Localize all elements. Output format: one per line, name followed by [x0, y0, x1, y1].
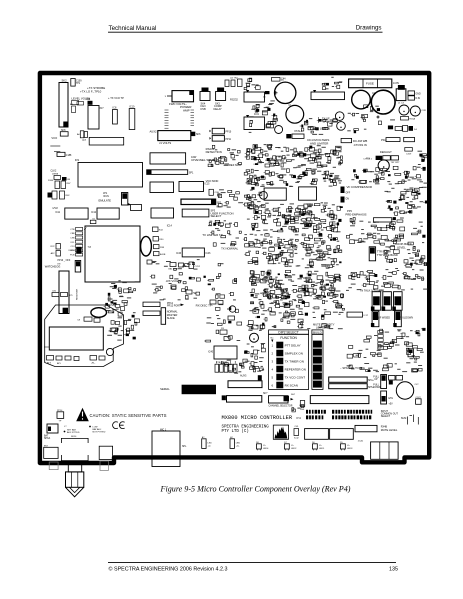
relay K1 fwd-volts: [165, 91, 194, 102]
component cluster (pre-emphasis right): [385, 187, 428, 215]
component cluster (left of modulator): [208, 145, 241, 166]
component cluster (mid-left strip): [150, 259, 237, 300]
svg-text:SUM: SUM: [401, 417, 406, 420]
component cluster (bottom mid misc): [292, 405, 304, 412]
svg-text:-. SPK/LINE TO SPK: -. SPK/LINE TO SPK: [340, 366, 365, 370]
connector AUX3: [228, 375, 262, 388]
terminal block X2: [358, 441, 398, 460]
CPU IC28 (square QFP): [84, 226, 140, 282]
resistor row 2 below VCO: [90, 356, 105, 365]
svg-text:SIMPLEX ON: SIMPLEX ON: [285, 352, 303, 356]
resistor PH6: [300, 401, 305, 412]
svg-text:+ TX VCO TP: + TX VCO TP: [108, 96, 124, 100]
svg-text:LED: LED: [208, 443, 213, 445]
capacitor C82: [77, 317, 100, 322]
svg-text:L1 C3: L1 C3: [398, 103, 405, 105]
component cluster (ttr area): [384, 246, 427, 271]
svg-text:PP11: PP11: [226, 139, 232, 141]
svg-text:C9B: C9B: [70, 238, 75, 240]
svg-text:LED2: LED2: [291, 448, 297, 450]
trimpot PP11: [210, 136, 232, 142]
speaker/buzzer LS1: [396, 382, 413, 399]
labels ETH +5V: [389, 398, 394, 406]
svg-text:OFF: OFF: [346, 193, 351, 195]
IC39: [143, 311, 160, 315]
svg-text:ON: ON: [346, 199, 350, 201]
fuse block F1: [349, 79, 392, 88]
diode D4: [388, 126, 402, 131]
svg-text:A31B: A31B: [160, 253, 166, 256]
IC31 (audio IC): [244, 114, 265, 130]
connector SK1 (receiver header): [59, 271, 69, 314]
resistor A32: [51, 251, 61, 257]
crystal Y2 (oval): [91, 308, 107, 318]
connector SK8: [60, 130, 68, 136]
svg-text:PP14: PP14: [57, 410, 63, 412]
logo barcode (spectra): [273, 425, 288, 439]
svg-text:Q2 TR2: Q2 TR2: [230, 78, 238, 80]
svg-text:CTCSS: CTCSS: [106, 303, 115, 307]
relay footprint K2: [305, 429, 329, 440]
svg-text:Technical Manual: Technical Manual: [109, 25, 157, 32]
capacitor C45 (electrolytic): [286, 105, 304, 123]
trimpot VR2: [337, 122, 346, 131]
jumper PP7: [408, 349, 413, 357]
label DC-FM WB CTCSS IN: [353, 139, 367, 147]
svg-text:SELECT: SELECT: [211, 214, 222, 218]
connector SK10: [222, 393, 268, 402]
svg-text:DM18: DM18: [69, 250, 76, 252]
resistor R17: [341, 138, 352, 142]
resistor pack row (reset): [215, 361, 237, 372]
IC46: [176, 248, 211, 257]
IC16: [151, 208, 174, 218]
svg-text:-D-: -D-: [347, 445, 350, 447]
pin label column (power amp pins): [165, 110, 195, 128]
label SP3 USER FUNCTION SELECT: [211, 210, 234, 219]
inductor L1: [398, 103, 409, 116]
svg-text:PR12 PORT: PR12 PORT: [167, 305, 181, 308]
component cluster (disc extra): [256, 273, 340, 298]
label PP12 PORT: [167, 302, 184, 308]
svg-text:CTC56 1: CTC56 1: [363, 159, 373, 161]
svg-text:DVB: DVB: [248, 330, 253, 332]
DIP switch column BUILD: [312, 330, 323, 390]
svg-text:+D-: +D-: [236, 445, 240, 447]
transistor TR4: [275, 126, 283, 134]
svg-text:-D-: -D-: [263, 445, 266, 447]
svg-text:SPKA: SPKA: [44, 437, 51, 440]
wire stub left: [44, 346, 49, 348]
svg-text:Drawings: Drawings: [356, 25, 382, 32]
board outline (PCB edge): [40, 73, 429, 463]
svg-text:IC42: IC42: [294, 438, 299, 440]
label JP1 RUN EMULATE: [99, 192, 112, 203]
zener Z6: [263, 91, 270, 99]
component cluster (above DIP table): [267, 300, 344, 329]
test wire stubs: [50, 145, 60, 147]
resistor network RN2: [403, 126, 418, 132]
svg-text:ADJ FITTED: ADJ FITTED: [67, 431, 80, 434]
svg-text:NOT FITTED: NOT FITTED: [93, 432, 106, 434]
capacitor C18B: [416, 397, 422, 404]
component cluster (loop-back area): [346, 217, 425, 247]
connector SP4 (ribbon): [329, 377, 375, 382]
IC14: [150, 182, 174, 193]
inductor L2: [410, 106, 426, 116]
IC11: [55, 208, 88, 219]
svg-text:LIF WISED: LIF WISED: [378, 316, 390, 319]
svg-text:VCO: VCO: [51, 136, 57, 140]
svg-text:LIF ULDOWN: LIF ULDOWN: [398, 316, 413, 319]
svg-text:IC9: IC9: [75, 158, 80, 162]
svg-text:D.IN: D.IN: [416, 98, 421, 100]
svg-text:-RX VCO TP: -RX VCO TP: [166, 279, 183, 283]
svg-text:DOWN: DOWN: [373, 387, 381, 389]
IC12: [91, 208, 119, 219]
svg-text:FUNCTION: FUNCTION: [280, 336, 297, 340]
component cluster (top edge misc): [244, 78, 260, 90]
svg-text:C319: C319: [406, 154, 412, 156]
jumper pull-up/down: [381, 375, 387, 405]
label TTR NORM / TTR WIDE BAND: [377, 250, 398, 257]
label LOW BAT marker: [89, 426, 106, 434]
svg-text:SPL: SPL: [182, 446, 187, 448]
component cluster (top edge right of C44): [322, 77, 342, 90]
svg-text:SLAVE: SLAVE: [167, 316, 175, 320]
connector bottom stub B: [99, 446, 112, 459]
svg-text:MUTE LEVEL: MUTE LEVEL: [381, 428, 398, 432]
fuse F2: [57, 410, 64, 423]
capacitor C319: [405, 148, 413, 156]
capacitor C109 with TP1: [71, 79, 82, 87]
DIP switch table DIP2 SELECT: [269, 330, 309, 390]
regulator PS1: [381, 137, 415, 141]
microphone connector MIC1: [152, 430, 187, 467]
label TX VF GAIN: [319, 117, 330, 124]
resistor row below VCO: [47, 356, 80, 366]
svg-text:PC92: PC92: [195, 266, 201, 268]
label POWER AMP: [180, 105, 192, 113]
svg-text:RUN: RUN: [104, 195, 110, 198]
IC15: [179, 182, 210, 192]
svg-text:IC40: IC40: [208, 352, 214, 354]
resistor R38: [154, 245, 165, 250]
component cluster (right of SK1): [104, 280, 140, 340]
svg-text:-D-: -D-: [319, 445, 322, 447]
component cluster (serial area misc): [221, 359, 249, 374]
component cluster (right of SP3): [217, 189, 244, 207]
svg-text:PRE-EMPHASIS: PRE-EMPHASIS: [345, 212, 366, 216]
svg-text:C18?: C18?: [416, 397, 422, 399]
transistor TR5: [260, 191, 268, 199]
relay footprint K3: [330, 429, 354, 440]
resistor cluster mid: [168, 263, 184, 271]
channel selector switch: [269, 394, 296, 408]
svg-text:SK6: SK6: [196, 134, 201, 136]
svg-text:IC14: IC14: [167, 225, 173, 228]
svg-text:SK14: SK14: [71, 436, 77, 438]
capacitor C2 (reservoir): [355, 90, 395, 118]
IC30 (op-amp): [311, 90, 345, 100]
capacitor PC92: [189, 262, 201, 269]
svg-text:LED1: LED1: [319, 448, 325, 450]
svg-text:C188: C188: [66, 155, 72, 157]
jumper JP5 default row: [366, 156, 399, 160]
component cluster (lower mid strip): [204, 304, 242, 342]
crystal XTAL1: [286, 129, 304, 138]
svg-text:FUSE: FUSE: [366, 82, 374, 86]
svg-text:AMP: AMP: [183, 109, 190, 113]
connector SK3 COMP DELAY: [214, 88, 226, 112]
svg-text:C?B R?B: C?B R?B: [216, 362, 226, 364]
svg-text:LEVEL: LEVEL: [397, 245, 406, 249]
svg-text:JWPA: JWPA: [52, 173, 58, 176]
svg-text:MX800 MICRO CONTROLLER: MX800 MICRO CONTROLLER: [222, 415, 293, 421]
LED row D4-D8: [202, 436, 353, 450]
connector SK7 (DC in): [393, 83, 406, 101]
terminal GND: [408, 91, 421, 95]
trimpot DVB2: [248, 330, 259, 342]
IC10: [129, 106, 135, 130]
svg-text:VF COMPRESSOR: VF COMPRESSOR: [347, 185, 373, 189]
jumper PP4 TTR: [369, 247, 375, 261]
svg-text:IC31: IC31: [254, 114, 260, 116]
svg-text:DELAY: DELAY: [214, 107, 222, 111]
component cluster (right edge strip): [417, 151, 428, 168]
svg-text:IC11: IC11: [55, 212, 60, 214]
speaker connector bracket SK14: [61, 436, 88, 461]
component cluster (below C44): [262, 100, 277, 127]
connector SP1 (flat cable): [147, 170, 194, 175]
IC footprint SUM: [401, 415, 418, 425]
IC7 (long DIP): [82, 137, 123, 145]
trimpot PR5: [228, 306, 236, 320]
component cluster (filter section): [243, 233, 342, 268]
svg-text:TX VCO CONT: TX VCO CONT: [285, 376, 306, 380]
capacitor C6: [90, 219, 96, 224]
svg-text:IC46: IC46: [176, 253, 182, 255]
capacitor C81 pair: [52, 291, 73, 298]
component cluster (tone select): [346, 271, 428, 291]
resistor R68: [86, 99, 93, 105]
IC47: [355, 425, 377, 431]
svg-text:PTY LTD (C): PTY LTD (C): [222, 429, 249, 434]
capacitor C3H: [209, 189, 219, 195]
svg-text:IC8: IC8: [113, 107, 117, 110]
svg-text:+D-: +D-: [208, 445, 212, 447]
svg-text:TX TIMER ON: TX TIMER ON: [285, 360, 304, 364]
component cluster (discriminator section): [249, 270, 343, 300]
svg-text:CAUTION: STATIC SENSITIVE PART: CAUTION: STATIC SENSITIVE PARTS: [90, 413, 167, 418]
svg-text:ON: ON: [67, 179, 71, 181]
resistor cluster near SK2: [70, 101, 84, 113]
component cluster (above modulator ICs): [244, 168, 342, 187]
IC40: [208, 346, 237, 359]
trimpot PP10: [210, 128, 232, 134]
label LOOP-BACK LEVEL: [396, 242, 412, 249]
svg-text:R16A: R16A: [410, 118, 416, 121]
jumper block row 2: [371, 311, 401, 327]
svg-text:X1?: X1?: [100, 108, 105, 110]
svg-text:C3R: C3R: [422, 110, 427, 112]
svg-text:SPECTRA ENGINEERING: SPECTRA ENGINEERING: [222, 425, 270, 429]
svg-text:TST RPT: TST RPT: [391, 162, 401, 164]
VCO shield outline: [45, 305, 124, 367]
header rule: [108, 31, 383, 33]
svg-text:LED3: LED3: [347, 448, 353, 450]
capacitor C58: [224, 337, 230, 341]
svg-text:C7B: C7B: [70, 229, 75, 231]
transistor A6 pair: [77, 131, 88, 138]
svg-text:EMULATE: EMULATE: [99, 199, 112, 203]
capacitor C51: [147, 260, 152, 264]
resistor A31B: [154, 252, 166, 257]
svg-text:IC15: IC15: [205, 184, 211, 186]
capacitor C41: [294, 426, 299, 440]
svg-text:DVB: DVB: [201, 107, 207, 111]
component cluster (compressor right): [351, 166, 428, 184]
svg-text:IC10: IC10: [129, 106, 135, 109]
component cluster (limiter strip): [208, 220, 241, 246]
svg-text:13.8V: 13.8V: [393, 83, 399, 85]
svg-text:CLK2: CLK2: [51, 171, 57, 173]
connector SP5 (ribbon): [329, 384, 375, 389]
svg-text:SP1: SP1: [189, 172, 194, 175]
resistor cluster near R33: [171, 285, 197, 295]
svg-text:RX SCAN: RX SCAN: [285, 384, 298, 388]
component cluster (left of IC23): [244, 187, 262, 202]
svg-text:IC12: IC12: [91, 212, 97, 214]
svg-text:P.4: P.4: [297, 416, 302, 420]
svg-text:SK?: SK?: [263, 393, 268, 395]
svg-text:SELECT: SELECT: [381, 415, 391, 418]
svg-text:C8B: C8B: [70, 233, 75, 235]
svg-text:CHANNEL SELECTOR: CHANNEL SELECTOR: [269, 405, 293, 408]
svg-text:R166: R166: [48, 180, 54, 182]
jumper PP2 compressor: [341, 187, 351, 203]
component cluster (modulator section): [243, 202, 343, 233]
label PP3 PRE-EMPHASIS: [345, 209, 366, 216]
resistor R22: [50, 244, 60, 250]
label RX4B MUTE LEVEL: [381, 426, 398, 432]
svg-text:REPEATER ON: REPEATER ON: [285, 368, 306, 372]
svg-text:RS232: RS232: [230, 98, 238, 102]
connector SP3: [182, 209, 209, 217]
svg-text:PP10: PP10: [226, 132, 232, 134]
connector bottom stub A: [49, 462, 58, 470]
IC23: [264, 188, 286, 200]
svg-text:AND LIMITER: AND LIMITER: [310, 141, 328, 145]
svg-text:Figure 9-5 Micro Controller C: Figure 9-5 Micro Controller Component Ov…: [160, 485, 351, 494]
svg-text:-D-: -D-: [291, 445, 294, 447]
resistor R42: [153, 227, 164, 232]
terminal D.IN: [408, 96, 420, 100]
svg-text:H*L8: H*L8: [53, 208, 59, 210]
svg-text:PCB: PCB: [70, 255, 75, 257]
date code stamps: [306, 410, 372, 420]
svg-text:.CTCSS IN: .CTCSS IN: [353, 143, 367, 147]
svg-text:LED4: LED4: [263, 448, 269, 450]
IC17: [347, 312, 369, 317]
black cap DM18: [69, 247, 82, 254]
label INPUT COMMON OUT SELECT: [381, 410, 399, 418]
capacitor C188: [57, 152, 72, 157]
component cluster (TX audio section): [245, 144, 343, 168]
resistor R33: [220, 328, 227, 334]
svg-text:IC17: IC17: [364, 315, 369, 317]
DC power plug: [66, 464, 84, 497]
svg-text:J1 VOLTS: J1 VOLTS: [159, 141, 171, 145]
IC29 (op-amp): [244, 90, 265, 102]
connector SK4 FAN DVB: [200, 88, 210, 112]
svg-text:LED: LED: [236, 443, 241, 445]
connector SP2 (flat cable): [181, 199, 222, 204]
CE mark: [113, 422, 125, 429]
connector SK9 bottom-left: [44, 446, 58, 459]
jumper JP1: [122, 193, 132, 206]
resistor column (tone): [378, 331, 383, 350]
svg-text:GND: GND: [416, 93, 421, 95]
svg-text:-R1-: -R1-: [91, 363, 96, 365]
component cluster (top right filters): [347, 105, 395, 133]
jumper input select: [389, 376, 403, 385]
IC24: [299, 187, 317, 200]
connector BAT: [44, 424, 58, 440]
svg-text:RECEIVER: RECEIVER: [77, 288, 79, 300]
svg-text:© SPECTRA ENGINEERING 2006 Rev: © SPECTRA ENGINEERING 2006 Revision 4.2.…: [109, 566, 228, 573]
labels LIF WISED / LIF ULDOWN: [378, 316, 413, 319]
label LOW BAT ADJ FITTED: [64, 426, 80, 434]
svg-text:IC46: IC46: [206, 253, 212, 255]
IC9 (EPROM, large DIP): [78, 163, 143, 188]
label MUTE POLARITY: [313, 323, 335, 330]
resistor R30: [153, 237, 164, 242]
trimpot tone: [378, 160, 400, 171]
resistor R-top: [272, 78, 285, 82]
transistor Q3: [106, 348, 113, 355]
connector bottom stub C: [100, 461, 108, 470]
resistor pack RP1: [374, 218, 392, 222]
svg-text:REF MOD: REF MOD: [229, 163, 241, 167]
label DC-FM FILTERS AND LIMITER: [307, 138, 329, 145]
component cluster (left of DIP): [244, 343, 265, 372]
svg-text:+5V: +5V: [389, 404, 394, 406]
IC8: [113, 107, 118, 125]
label RS232 DETECTION: [206, 147, 222, 154]
svg-text:PTT DELAY: PTT DELAY: [285, 344, 301, 348]
svg-text:135: 135: [389, 567, 398, 573]
transistor Q2 TR2 group: [225, 78, 242, 87]
IC13 channel select buffer: [150, 153, 186, 164]
svg-text:TP1: TP1: [76, 83, 81, 85]
crystal Y1 (oval): [141, 236, 152, 256]
connector J1 (AUX2 header): [158, 131, 191, 145]
component cluster (line-in section): [300, 118, 338, 135]
caution triangle: [76, 408, 89, 422]
label SPECTRA ENGINEERING PTY LTD: [222, 425, 270, 433]
resistor R16: [266, 125, 274, 128]
svg-text:ETH: ETH: [389, 398, 394, 400]
jumper block row (tone options): [371, 292, 402, 311]
labels NORMAL MASTER SLAVE: [167, 310, 178, 321]
svg-text:SERIAL: SERIAL: [160, 387, 170, 391]
component cluster (tone jumper field): [347, 328, 426, 372]
connector SK2 (left edge header): [59, 79, 68, 128]
capacitor C44 (electrolytic): [274, 78, 296, 104]
resistor R16A: [401, 117, 416, 121]
IC38: [143, 302, 160, 307]
